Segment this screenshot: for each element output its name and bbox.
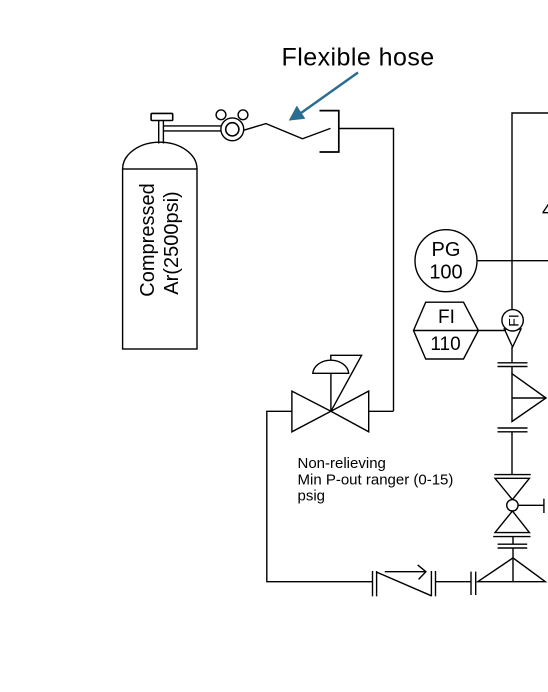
- wire bracket to down pipe: [339, 129, 394, 412]
- svg-text:Ar(2500psi): Ar(2500psi): [161, 191, 183, 294]
- flow indicator FI 110 (hexagon): [414, 302, 479, 359]
- wire: hexagon to rotameter line: [478, 330, 506, 332]
- flange F3 (below filter): [498, 428, 528, 432]
- pressure regulator valve PRV (bowtie + dome + flag): [292, 355, 369, 432]
- svg-text:Non-relieving: Non-relieving: [298, 455, 386, 472]
- wire: regulator right up: [369, 410, 394, 412]
- gauge PG 100: [415, 230, 548, 292]
- wire: top corner down to rotameter: [512, 113, 548, 310]
- svg-text:FI: FI: [505, 314, 521, 326]
- flange F2 above vent cone: [493, 537, 530, 558]
- svg-text:Flexible hose: Flexible hose: [282, 44, 435, 72]
- ball valve BV1 (vertical bowtie with handle): [494, 475, 544, 533]
- pipe (double line) valve to regulator: [163, 126, 221, 131]
- check valve CV1: [373, 565, 436, 596]
- svg-text:FI: FI: [438, 307, 455, 328]
- filter (right-pointing triangle): [512, 374, 546, 422]
- wire: check valve to flange: [436, 581, 472, 583]
- annotation arrow: [290, 73, 358, 120]
- wire: filter to ball valve: [511, 432, 513, 474]
- flange F1 (bottom): [471, 572, 476, 595]
- svg-text:4: 4: [542, 200, 548, 222]
- cylinder label "Compressed Ar(2500psi)": [137, 183, 183, 296]
- svg-text:Min P-out ranger (0-15): Min P-out ranger (0-15): [298, 471, 454, 488]
- svg-text:psig: psig: [298, 488, 326, 505]
- svg-text:110: 110: [430, 334, 460, 355]
- rotameter FI (bubble + cone): [502, 310, 523, 347]
- quick-connect bracket: [320, 111, 339, 152]
- svg-text:PG: PG: [432, 239, 461, 261]
- wire: rotameter to flange: [511, 347, 513, 363]
- vent cone (big triangle): [478, 558, 546, 582]
- flange F4 (above filter): [498, 363, 528, 374]
- gas cylinder body: [123, 142, 197, 349]
- wire: regulator left to down loop: [267, 411, 373, 581]
- regulator R1 (two gauges + body): [216, 110, 248, 141]
- flexible hose: [243, 124, 330, 139]
- cylinder valve: [151, 113, 173, 143]
- svg-text:100: 100: [429, 262, 462, 284]
- svg-text:Compressed: Compressed: [137, 183, 159, 296]
- note text: [298, 455, 454, 505]
